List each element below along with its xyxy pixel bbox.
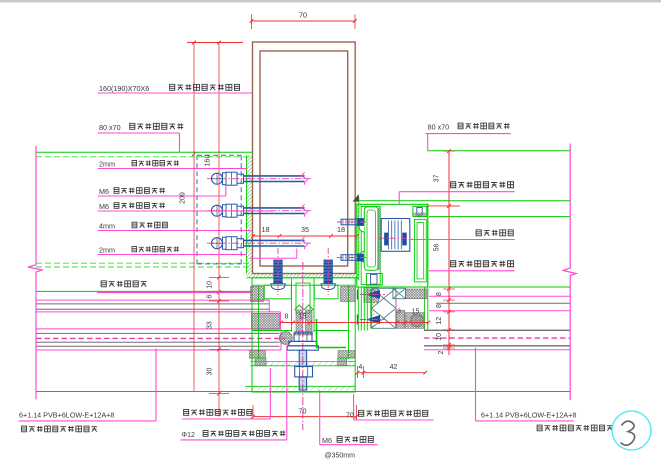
svg-text:2mm: 2mm [99, 160, 115, 169]
svg-text:30: 30 [207, 368, 214, 376]
svg-text:35: 35 [301, 225, 309, 234]
svg-text:6+1.14 PVB+6LOW-E+12A+8: 6+1.14 PVB+6LOW-E+12A+8 [19, 411, 114, 420]
svg-text:209: 209 [180, 192, 187, 204]
svg-text:12: 12 [436, 317, 443, 325]
svg-text:2: 2 [438, 350, 445, 354]
svg-text:8: 8 [285, 314, 289, 321]
svg-text:15: 15 [412, 309, 420, 316]
svg-text:10: 10 [207, 281, 214, 289]
svg-text:70: 70 [299, 407, 307, 416]
svg-text:18: 18 [262, 225, 270, 234]
svg-text:Φ12: Φ12 [182, 432, 195, 439]
svg-text:15: 15 [299, 314, 307, 321]
svg-text:160: 160 [205, 155, 212, 167]
svg-text:80 x70: 80 x70 [99, 123, 121, 132]
svg-text:160(190)X70X6: 160(190)X70X6 [99, 84, 149, 93]
svg-text:37: 37 [434, 175, 441, 183]
svg-text:56: 56 [434, 244, 441, 252]
svg-text:6: 6 [207, 295, 214, 299]
svg-text:M6: M6 [322, 436, 332, 445]
svg-text:2mm: 2mm [99, 246, 115, 255]
svg-text:18: 18 [337, 225, 345, 234]
svg-text:4: 4 [359, 364, 363, 371]
svg-text:80 x70: 80 x70 [428, 123, 450, 132]
svg-text:33: 33 [207, 321, 214, 329]
svg-text:70: 70 [346, 413, 354, 420]
svg-text:M6: M6 [99, 202, 109, 211]
svg-text:10: 10 [436, 333, 443, 341]
svg-text:70: 70 [299, 11, 307, 20]
svg-text:4mm: 4mm [99, 222, 115, 231]
svg-text:6+1.14 PVB+6LOW-E+12A+8: 6+1.14 PVB+6LOW-E+12A+8 [481, 411, 576, 420]
svg-text:3: 3 [397, 309, 401, 316]
svg-text:8: 8 [436, 292, 443, 296]
svg-text:42: 42 [390, 364, 398, 371]
svg-text:@350mm: @350mm [325, 453, 356, 460]
svg-text:8: 8 [436, 304, 443, 308]
svg-text:M6: M6 [99, 187, 109, 196]
